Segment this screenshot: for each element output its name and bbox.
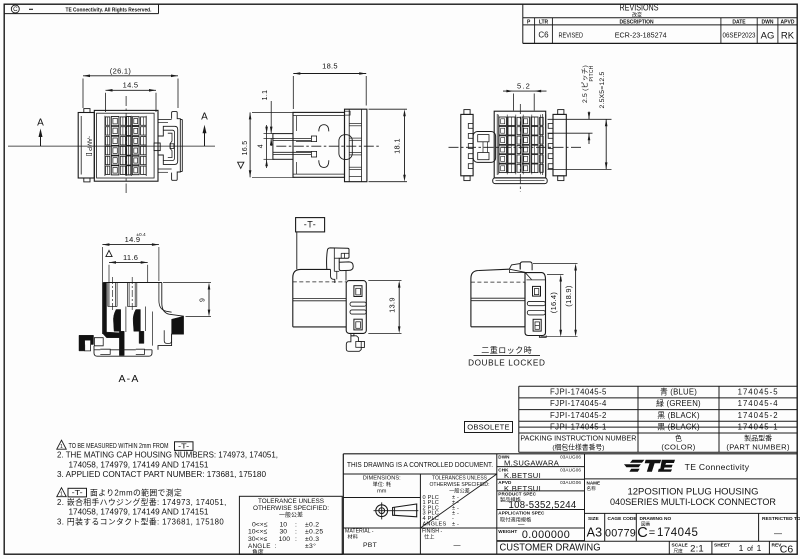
svg-text:THIS DRAWING IS A CONTROLLED D: THIS DRAWING IS A CONTROLLED DOCUMENT. xyxy=(347,460,493,469)
svg-text:11.6: 11.6 xyxy=(123,253,138,262)
svg-text:16.5: 16.5 xyxy=(242,141,249,156)
svg-text:製品型番: 製品型番 xyxy=(744,434,772,443)
svg-text:=: = xyxy=(649,527,655,539)
svg-text:単位: 粍: 単位: 粍 xyxy=(373,480,392,488)
svg-text:A: A xyxy=(37,117,44,128)
svg-text:03AUG06: 03AUG06 xyxy=(560,480,581,485)
svg-text:青 (BLUE): 青 (BLUE) xyxy=(660,387,697,397)
svg-text:FJPI-174045-5: FJPI-174045-5 xyxy=(550,388,607,397)
svg-text:00779: 00779 xyxy=(605,528,636,540)
svg-text:-T-: -T- xyxy=(304,220,317,230)
svg-text:-T-: -T- xyxy=(72,488,84,497)
svg-text:APPLICATION SPEC: APPLICATION SPEC xyxy=(498,510,545,515)
svg-text:174045: 174045 xyxy=(657,527,698,539)
svg-text:C: C xyxy=(13,6,18,13)
svg-text:RK: RK xyxy=(781,30,795,41)
svg-text:2.5 (ピッチ): 2.5 (ピッチ) xyxy=(581,65,589,103)
svg-text:WEIGHT: WEIGHT xyxy=(498,529,517,534)
svg-text:TE Connectivity: TE Connectivity xyxy=(685,462,750,472)
svg-text:(COLOR): (COLOR) xyxy=(661,443,695,452)
svg-text:名称: 名称 xyxy=(587,485,597,492)
svg-text:2. THE MATING CAP HOUSING NUMB: 2. THE MATING CAP HOUSING NUMBERS: 17497… xyxy=(57,451,278,460)
svg-text:LTR: LTR xyxy=(539,19,549,25)
svg-text:—: — xyxy=(518,522,525,529)
svg-text:TO BE MEASURED WITHIN 2mm FROM: TO BE MEASURED WITHIN 2mm FROM xyxy=(69,441,169,450)
svg-text:TE Connectivity. All Rights Re: TE Connectivity. All Rights Reserved. xyxy=(66,7,152,13)
svg-text:黒 (BLACK): 黒 (BLACK) xyxy=(657,411,700,420)
svg-text:of: of xyxy=(747,546,753,553)
svg-text:改変: 改変 xyxy=(632,11,642,18)
svg-text:10: 10 xyxy=(279,521,287,528)
svg-text:0<×≤: 0<×≤ xyxy=(252,521,268,528)
svg-text:(18.9): (18.9) xyxy=(564,285,573,307)
svg-text:TOLERANCE UNLESS: TOLERANCE UNLESS xyxy=(258,498,324,505)
svg-text:一般公差: 一般公差 xyxy=(279,511,303,519)
svg-text:± -: ± - xyxy=(452,521,459,527)
svg-text:DOUBLE LOCKED: DOUBLE LOCKED xyxy=(468,358,545,367)
svg-text:2. 嵌合相手ハウジング型番: 174973, 174051: 2. 嵌合相手ハウジング型番: 174973, 174051, xyxy=(57,497,227,507)
svg-text:仕上: 仕上 xyxy=(424,533,434,541)
svg-text:OTHERWISE SPECIFIED:: OTHERWISE SPECIFIED: xyxy=(253,505,329,512)
svg-text:3. 円装するコンタクト型番: 173681, 175180: 3. 円装するコンタクト型番: 173681, 175180 xyxy=(57,516,224,526)
svg-text:1: 1 xyxy=(757,543,762,553)
svg-text:-AMP []: -AMP [] xyxy=(86,136,92,156)
svg-text:CAGE CODE: CAGE CODE xyxy=(608,516,638,522)
svg-text:二重ロック時: 二重ロック時 xyxy=(481,345,532,355)
svg-text:30: 30 xyxy=(279,529,287,536)
svg-text:M.SUGAWARA: M.SUGAWARA xyxy=(504,458,560,467)
svg-text:9: 9 xyxy=(200,298,207,302)
svg-text:13.9: 13.9 xyxy=(387,297,396,313)
svg-text:PITCH: PITCH xyxy=(589,65,595,81)
svg-text:±0.25: ±0.25 xyxy=(305,529,323,536)
svg-text:100: 100 xyxy=(279,536,291,543)
svg-text:AG: AG xyxy=(761,30,775,41)
svg-text:10<×≤: 10<×≤ xyxy=(248,529,267,536)
svg-text:FJPI-174045-2: FJPI-174045-2 xyxy=(550,411,607,420)
svg-text:A-A: A-A xyxy=(118,373,139,385)
svg-text:PRODUCT SPEC: PRODUCT SPEC xyxy=(498,492,536,497)
svg-text:14.9: 14.9 xyxy=(125,235,141,244)
svg-text:12POSITION PLUG HOUSING: 12POSITION PLUG HOUSING xyxy=(628,487,759,497)
svg-text:A: A xyxy=(201,112,208,123)
svg-text:REVISED: REVISED xyxy=(559,31,584,40)
svg-text:174058, 174979, 174149 AND 174: 174058, 174979, 174149 AND 174151 xyxy=(69,460,210,469)
svg-text:SIZE: SIZE xyxy=(588,516,599,522)
svg-text:TOLERANCES UNLESS: TOLERANCES UNLESS xyxy=(432,476,487,482)
svg-text:CUSTOMER DRAWING: CUSTOMER DRAWING xyxy=(500,542,601,553)
svg-text:174045-5: 174045-5 xyxy=(738,388,779,397)
svg-text:1.1: 1.1 xyxy=(262,90,269,101)
svg-text:1: 1 xyxy=(739,543,744,553)
svg-text:30<×≤: 30<×≤ xyxy=(248,536,267,543)
svg-text:(16.4): (16.4) xyxy=(549,292,558,314)
svg-text:06SEP2023: 06SEP2023 xyxy=(723,31,756,40)
svg-text:1: 1 xyxy=(60,444,63,450)
svg-text:040SERIES MULTI-LOCK CONNECTOR: 040SERIES MULTI-LOCK CONNECTOR xyxy=(610,497,776,507)
svg-text:材料: 材料 xyxy=(348,533,358,541)
svg-text:0.000000: 0.000000 xyxy=(522,529,570,541)
svg-text:ECR-23-185274: ECR-23-185274 xyxy=(615,31,667,40)
svg-text:±0.2: ±0.2 xyxy=(305,521,319,528)
svg-text:18.1: 18.1 xyxy=(393,138,402,154)
svg-text:尺度: 尺度 xyxy=(674,547,684,554)
svg-text:RESTRICTED TO: RESTRICTED TO xyxy=(762,516,800,522)
svg-text:APVD: APVD xyxy=(781,19,795,25)
svg-text:174045-4: 174045-4 xyxy=(738,399,779,408)
svg-text:±3°: ±3° xyxy=(305,542,316,550)
svg-text:DIMENSIONS:: DIMENSIONS: xyxy=(363,476,401,482)
svg-text:5.2: 5.2 xyxy=(517,82,531,91)
svg-text:174045-2: 174045-2 xyxy=(738,411,779,420)
svg-text:C6: C6 xyxy=(780,544,794,556)
svg-text:DESCRIPTION: DESCRIPTION xyxy=(620,19,655,25)
svg-text:SHEET: SHEET xyxy=(714,543,730,549)
svg-text:(梱包仕様書番号): (梱包仕様書番号) xyxy=(552,443,604,452)
svg-text:角度: 角度 xyxy=(252,548,264,556)
svg-text:REVISIONS: REVISIONS xyxy=(620,3,659,13)
svg-text:—: — xyxy=(454,542,461,549)
svg-text:1: 1 xyxy=(60,492,63,498)
svg-text::: : xyxy=(295,529,297,536)
svg-text:FJPI-174045-4: FJPI-174045-4 xyxy=(550,399,607,408)
svg-text:(26.1): (26.1) xyxy=(110,66,132,75)
svg-text:-T-: -T- xyxy=(178,441,190,450)
svg-text:DWN: DWN xyxy=(762,19,774,25)
svg-text:18.5: 18.5 xyxy=(322,62,338,71)
svg-text:NAME: NAME xyxy=(587,481,601,486)
svg-text:4: 4 xyxy=(257,144,264,148)
svg-text:PBT: PBT xyxy=(363,542,377,549)
svg-text:A3: A3 xyxy=(587,526,603,540)
svg-text:±0.3: ±0.3 xyxy=(305,536,319,543)
svg-text:PACKING INSTRUCTION NUMBER: PACKING INSTRUCTION NUMBER xyxy=(520,434,636,443)
svg-text:2:1: 2:1 xyxy=(690,543,704,554)
svg-text::: : xyxy=(295,521,297,528)
svg-text:(PART NUMBER): (PART NUMBER) xyxy=(726,443,790,452)
svg-text:面より2mmの範囲で測定: 面より2mmの範囲で測定 xyxy=(90,488,182,498)
svg-text:174058, 174979, 174149 AND 174: 174058, 174979, 174149 AND 174151 xyxy=(69,508,210,517)
svg-text:—: — xyxy=(774,529,782,538)
svg-text:14.5: 14.5 xyxy=(123,81,139,90)
svg-text:一般公差: 一般公差 xyxy=(449,486,470,494)
svg-text:DATE: DATE xyxy=(732,19,746,25)
svg-text:OBSOLETE: OBSOLETE xyxy=(467,423,510,432)
svg-text::: : xyxy=(295,536,297,543)
svg-text:C6: C6 xyxy=(538,31,549,40)
svg-text:108-5352,5244: 108-5352,5244 xyxy=(509,500,577,511)
svg-text:03AUG06: 03AUG06 xyxy=(560,455,581,460)
svg-text:取付適用規格: 取付適用規格 xyxy=(500,515,532,523)
svg-text:C: C xyxy=(637,525,647,541)
svg-text:色: 色 xyxy=(675,434,682,443)
svg-text:3. APPLIED CONTACT PART NUMBER: 3. APPLIED CONTACT PART NUMBER: 173681, … xyxy=(57,470,267,479)
svg-text:03AUG06: 03AUG06 xyxy=(560,467,581,472)
svg-text:K.BETSUI: K.BETSUI xyxy=(504,471,541,480)
svg-text:緑 (GREEN): 緑 (GREEN) xyxy=(656,398,701,408)
svg-text:2.5X5=12.5: 2.5X5=12.5 xyxy=(599,72,606,109)
svg-text:mm: mm xyxy=(377,489,387,495)
